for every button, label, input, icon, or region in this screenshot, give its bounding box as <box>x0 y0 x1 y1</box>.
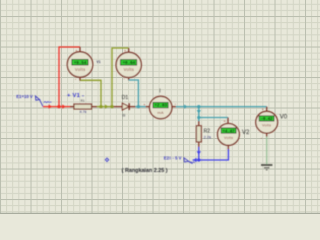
wire: voltmeter V1 - pin down to junction B (olive) <box>80 80 101 106</box>
svg-text:4.7k: 4.7k <box>80 110 87 114</box>
resistor R2 <box>196 121 211 147</box>
voltmeter V2 <box>218 118 240 150</box>
svg-text:V0: V0 <box>280 114 288 120</box>
svg-text:( Rangkaian 2.25 ): ( Rangkaian 2.25 ) <box>122 168 168 174</box>
current arrow <box>193 158 196 162</box>
origin marker <box>105 157 110 162</box>
junction G <box>197 158 200 161</box>
junction C <box>110 105 113 108</box>
wire: D1 cathode to ammeter (teal) <box>136 106 146 108</box>
voltmeter 2 (across D1) <box>116 48 141 81</box>
svg-text:Volts: Volts <box>75 67 86 72</box>
wire: E1 to junction A (red, +10V net) <box>43 106 59 108</box>
wire: junction F to voltmeter V2 + pin (teal) <box>199 117 228 119</box>
wire: junction G right and up to voltmeter V2 - pin (blue) <box>199 149 229 160</box>
wire: junction B to junction C (olive) <box>101 106 112 108</box>
wire: ammeter to junction E and on to V0 + pin (teal) <box>176 106 267 108</box>
svg-text:Volts: Volts <box>262 124 271 128</box>
wire: R2 bottom to junction G (blue, -5V net) <box>198 147 200 160</box>
svg-text:+0.64: +0.64 <box>122 60 135 66</box>
current arrow <box>197 151 201 154</box>
voltmeter V1 <box>67 47 92 82</box>
svg-text:E2= - 5 V: E2= - 5 V <box>164 156 182 161</box>
svg-text:+ V1 -: + V1 - <box>67 93 84 99</box>
current arrow <box>105 104 108 108</box>
current arrow <box>197 110 201 113</box>
current arrow <box>49 104 52 108</box>
svg-text:V2: V2 <box>242 130 250 136</box>
junction A <box>57 105 60 108</box>
svg-text:mA: mA <box>157 110 164 115</box>
voltmeter V0 <box>256 107 278 141</box>
svg-text:R1: R1 <box>81 99 85 103</box>
wire: riser junction A up to voltmeter V1 + pin (red) <box>59 47 80 107</box>
wire: junction A to R1 (red) <box>59 106 70 108</box>
diode D1 <box>114 95 136 117</box>
wire: junction G to E2 terminal (blue) <box>193 159 199 161</box>
wire: R1 to junction B (olive net 0.46V) <box>97 106 101 108</box>
svg-text:2.2k: 2.2k <box>204 134 212 139</box>
generator E2 terminal flag <box>164 156 195 164</box>
junction B <box>99 105 102 108</box>
wire: riser junction C up to voltmeter 2 + pin (olive) <box>112 48 129 107</box>
svg-text:D1: D1 <box>122 95 129 101</box>
wire: junction E down to junction F (teal) <box>198 107 200 118</box>
svg-text:-0.42: -0.42 <box>261 117 274 122</box>
svg-text:E1=10 V: E1=10 V <box>16 94 33 99</box>
resistor R1 <box>70 99 97 114</box>
svg-text:Volts: Volts <box>224 136 233 140</box>
junction E <box>197 105 200 108</box>
wire: voltmeter 2 - pin to junction D (teal net) <box>129 80 139 107</box>
svg-text:+2.03: +2.03 <box>154 103 167 109</box>
ground <box>261 165 272 170</box>
svg-text:Si: Si <box>122 114 125 118</box>
svg-text:V1: V1 <box>97 60 101 64</box>
junction D <box>137 105 140 108</box>
svg-text:Volts: Volts <box>124 67 135 72</box>
generator E1 terminal flag <box>16 94 51 107</box>
svg-text:+4.47: +4.47 <box>223 129 236 134</box>
svg-text:+9.54: +9.54 <box>74 60 87 66</box>
current arrow <box>184 104 187 108</box>
wire: junction F down to R2 (teal) <box>198 118 200 122</box>
svg-text:I: I <box>159 89 160 95</box>
wire: V0 - pin down to ground (0V green net) <box>266 137 268 165</box>
junction F <box>197 116 200 119</box>
current arrow <box>62 104 65 108</box>
ammeter I <box>143 96 176 118</box>
